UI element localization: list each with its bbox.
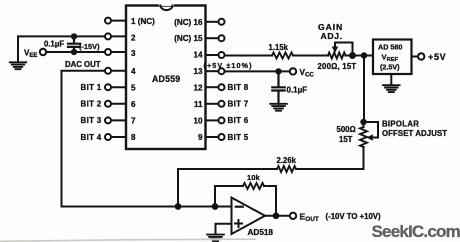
pin 14 terminal — [219, 52, 225, 58]
wire feedback left leg — [215, 186, 243, 207]
node: R3 wiper junction — [360, 119, 367, 126]
pin 2 terminal — [105, 33, 111, 39]
node: C1 bottom junction — [71, 49, 77, 55]
svg-text:2.26k: 2.26k — [277, 156, 297, 165]
wire plus input to ground — [216, 224, 232, 234]
potentiometer R3 500 ohm 15T — [363, 122, 365, 127]
pin 15 stub — [206, 37, 219, 39]
svg-text:0.1µF: 0.1µF — [287, 86, 308, 95]
resistor R5 10k — [243, 183, 264, 189]
pin 3 wire — [46, 51, 105, 53]
wire to ground — [17, 36, 19, 62]
svg-text:3: 3 — [131, 49, 136, 58]
pin 3 stub — [111, 51, 126, 53]
IC notch — [161, 3, 173, 6]
wire pin13 to VCC — [225, 70, 290, 72]
svg-text:0.1µF: 0.1µF — [44, 39, 64, 48]
wire op-amp output — [265, 215, 290, 217]
svg-text:BIPOLAR: BIPOLAR — [382, 119, 419, 128]
wire R2 to AD580 — [346, 55, 374, 57]
wire pin14 to R1 — [225, 55, 272, 57]
svg-text:(+5V ±10%): (+5V ±10%) — [204, 61, 253, 70]
svg-text:BIT 7: BIT 7 — [228, 100, 249, 109]
svg-text:14: 14 — [193, 51, 203, 60]
pin 6 terminal BIT2 — [105, 101, 111, 107]
pin 1 terminal — [105, 18, 111, 24]
svg-text:12: 12 — [193, 83, 203, 92]
scan artifact line — [0, 239, 255, 241]
ground (VCC filter) — [270, 104, 287, 111]
svg-text:(-10V TO +10V): (-10V TO +10V) — [326, 212, 382, 221]
U1 minus input symbol — [236, 206, 243, 208]
pin 12 stub — [206, 86, 219, 88]
op-amp U1 AD518 — [232, 198, 266, 235]
node: wiper junction — [349, 52, 356, 59]
wire bipolar branch vertical — [363, 56, 365, 123]
svg-text:BIT 8: BIT 8 — [228, 83, 249, 92]
pin 3 terminal — [105, 49, 111, 55]
R2 wiper loop wire — [335, 43, 353, 56]
pin 9 terminal BIT5 — [219, 134, 225, 140]
svg-text:EOUT: EOUT — [300, 212, 319, 224]
pin 8 stub — [111, 136, 126, 138]
svg-text:AD518: AD518 — [248, 228, 274, 237]
pin 16 stub — [206, 21, 219, 23]
svg-text:BIT 2: BIT 2 — [81, 100, 102, 109]
pin 4 DAC OUT wire — [62, 71, 106, 207]
ground (op-amp) — [207, 235, 224, 242]
pin 11 terminal BIT7 — [219, 101, 225, 107]
node: C1 top junction — [71, 33, 77, 39]
pin 10 stub — [206, 119, 219, 121]
pin 1 stub — [111, 20, 126, 22]
potentiometer R2 200 ohm 15T — [328, 53, 346, 59]
svg-text:DAC OUT: DAC OUT — [65, 60, 101, 69]
svg-text:7: 7 — [131, 117, 136, 126]
svg-text:(NC) 16: (NC) 16 — [174, 18, 203, 27]
svg-text:9: 9 — [198, 133, 203, 142]
pin 16 terminal — [219, 19, 225, 25]
pin 2 wire — [18, 35, 105, 37]
pin 14 stub — [206, 54, 219, 56]
pin 5 terminal BIT1 — [105, 84, 111, 90]
svg-text:13: 13 — [193, 67, 203, 76]
svg-text:+5V: +5V — [428, 52, 446, 62]
svg-text:1.15k: 1.15k — [269, 43, 289, 52]
svg-text:8: 8 — [131, 133, 136, 142]
EOUT terminal — [290, 213, 296, 219]
pin 4 terminal — [105, 68, 111, 74]
AD580 ground stub — [390, 74, 392, 85]
svg-text:BIT 4: BIT 4 — [81, 133, 102, 142]
svg-text:AD 580: AD 580 — [378, 43, 402, 52]
wire feedback right leg — [264, 186, 276, 216]
ground (VEE filter) — [10, 62, 26, 69]
pin 9 stub — [206, 136, 219, 138]
svg-text:500Ω: 500Ω — [337, 125, 356, 134]
VCC terminal — [290, 68, 296, 74]
pin 11 stub — [206, 103, 219, 105]
svg-text:1 (NC): 1 (NC) — [131, 17, 155, 26]
wire R4 to summing node — [178, 169, 277, 207]
svg-text:SeekIC.com: SeekIC.com — [372, 222, 460, 241]
svg-text:(NC) 15: (NC) 15 — [174, 34, 203, 43]
VEE terminal — [40, 49, 46, 55]
U1 plus input symbol — [235, 220, 242, 227]
op-amp U2 AD559 DAC body — [126, 6, 206, 150]
node: bipolar branch junction — [361, 52, 368, 59]
svg-text:BIT 3: BIT 3 — [81, 116, 102, 125]
svg-text:5: 5 — [131, 83, 136, 92]
+5V terminal — [418, 53, 424, 59]
pin 8 terminal BIT4 — [105, 134, 111, 140]
svg-text:VCC: VCC — [300, 68, 315, 79]
svg-text:VEE: VEE — [24, 49, 37, 60]
pin 6 stub — [111, 103, 126, 105]
svg-text:BIT 6: BIT 6 — [228, 116, 249, 125]
node: output junction — [273, 212, 280, 219]
svg-text:2: 2 — [131, 33, 136, 42]
capacitor C2 0.1uF — [272, 71, 284, 103]
svg-text:OFFSET ADJUST: OFFSET ADJUST — [382, 129, 447, 138]
pin 7 terminal BIT3 — [105, 117, 111, 123]
svg-text:6: 6 — [131, 100, 136, 109]
svg-text:BIT 1: BIT 1 — [81, 83, 102, 92]
svg-text:10: 10 — [193, 117, 203, 126]
capacitor C1 0.1uF — [68, 36, 80, 52]
pin 2 stub — [111, 35, 126, 37]
wire R3 bottom to R4 — [296, 147, 364, 169]
AD580 output stub — [412, 56, 419, 58]
wire R1 to R2 — [293, 55, 328, 57]
node: summing junction A — [175, 203, 182, 210]
svg-text:(-15V): (-15V) — [79, 42, 100, 51]
pin 7 stub — [111, 119, 126, 121]
node: feedback junction — [212, 203, 219, 210]
svg-text:AD559: AD559 — [152, 74, 180, 84]
pin 12 terminal BIT8 — [219, 84, 225, 90]
svg-text:10k: 10k — [247, 173, 260, 182]
svg-text:11: 11 — [194, 100, 203, 109]
node: VCC cap junction — [275, 68, 281, 74]
voltage reference U3 AD580 body — [373, 40, 412, 75]
svg-text:4: 4 — [131, 67, 136, 76]
pin 4 stub — [111, 70, 126, 72]
svg-text:(2.5V): (2.5V) — [380, 62, 400, 71]
R3 wiper loop wire — [364, 122, 379, 138]
pin 13 stub — [206, 70, 219, 72]
R3 wiper arrow — [374, 137, 379, 139]
wire DAC OUT to op-amp — [62, 206, 232, 208]
R2 wiper arrow — [334, 43, 336, 48]
svg-text:BIT 5: BIT 5 — [228, 133, 249, 142]
pin 10 terminal BIT6 — [219, 117, 225, 123]
svg-text:15T: 15T — [339, 135, 353, 144]
resistor R1 1.15k — [272, 53, 293, 59]
pin 5 stub — [111, 86, 126, 88]
resistor R4 2.26k — [277, 166, 296, 172]
pin 15 terminal — [219, 35, 225, 41]
ground (AD580) — [383, 85, 400, 92]
pin 13 terminal — [219, 68, 225, 74]
svg-text:ADJ.: ADJ. — [321, 31, 343, 41]
svg-text:200Ω, 15T: 200Ω, 15T — [318, 62, 357, 71]
